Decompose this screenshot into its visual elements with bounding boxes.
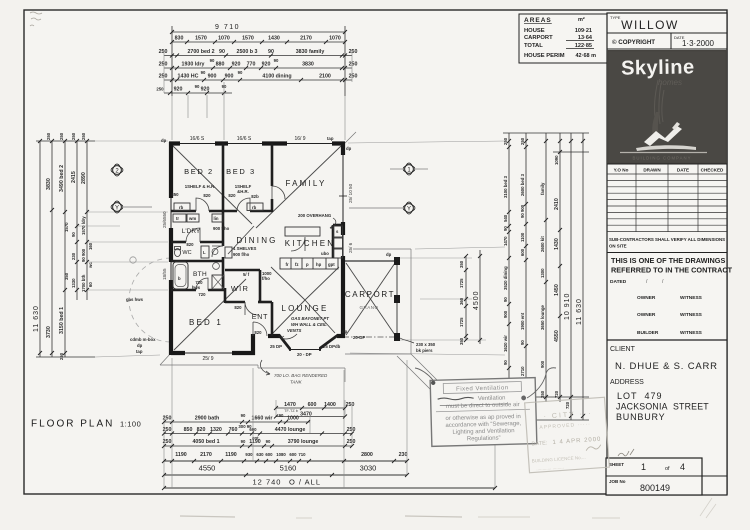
svg-text:Y: Y: [115, 206, 119, 212]
drawn/date/checked table: [607, 164, 727, 232]
svg-text:family: family: [540, 182, 545, 195]
svg-text:630: 630: [256, 452, 264, 457]
svg-text:WC: WC: [182, 250, 191, 256]
svg-text:CLIENT: CLIENT: [610, 346, 636, 353]
svg-text:3150 bed 1: 3150 bed 1: [59, 307, 65, 334]
svg-text:25/ 10 50: 25/ 10 50: [348, 183, 353, 203]
svg-text:1: 1: [641, 462, 646, 472]
svg-text:....: ....: [713, 268, 719, 274]
faint marks below border: [180, 516, 235, 517]
svg-text:900 f/ho: 900 f/ho: [233, 252, 250, 257]
svg-text:1190: 1190: [175, 452, 187, 458]
svg-text:90: 90: [210, 58, 215, 63]
svg-text:25 DPdb: 25 DPdb: [323, 344, 341, 349]
laundry cells: [173, 203, 263, 258]
svg-text:b: b: [178, 276, 181, 281]
svg-text:820: 820: [186, 242, 194, 247]
svg-text:lin: lin: [214, 216, 219, 221]
title column frame: [607, 13, 727, 495]
svg-text:DATED: DATED: [610, 279, 627, 285]
svg-text:930: 930: [245, 452, 253, 457]
svg-text:4 SHELVES: 4 SHELVES: [233, 246, 256, 251]
svg-text:350: 350: [459, 337, 464, 345]
sheet box: [618, 449, 634, 456]
svg-text:1SHELF & H.R.: 1SHELF & H.R.: [185, 184, 216, 189]
svg-text:16/6 S: 16/6 S: [237, 136, 252, 142]
svg-text:1430: 1430: [554, 238, 560, 250]
svg-text:710: 710: [298, 452, 306, 457]
svg-text:1·3·2000: 1·3·2000: [682, 39, 715, 48]
svg-text:2800: 2800: [361, 452, 373, 458]
svg-text:2700 bed 2: 2700 bed 2: [187, 49, 214, 55]
kitchen bench cells: [280, 226, 343, 269]
svg-text:25/ 6: 25/ 6: [348, 242, 353, 253]
svg-text:hp: hp: [316, 262, 322, 267]
svg-text:N. DHUE & S. CARR: N. DHUE & S. CARR: [615, 361, 718, 372]
fixed ventilation stamp: [430, 378, 537, 447]
svg-text:1620 wir: 1620 wir: [503, 335, 508, 352]
svg-text:wm: wm: [188, 216, 196, 221]
svg-text:850: 850: [184, 427, 193, 433]
svg-text:12 740: 12 740: [253, 478, 282, 487]
svg-text:1070: 1070: [329, 36, 341, 42]
svg-text:DATE: DATE: [677, 168, 689, 173]
svg-text:2410: 2410: [554, 198, 560, 210]
svg-text:820: 820: [254, 330, 262, 335]
svg-text:90: 90: [279, 413, 284, 418]
svg-text:DINING: DINING: [236, 236, 277, 245]
svg-text:BED 3: BED 3: [226, 167, 256, 176]
svg-text:Ventilation: Ventilation: [478, 395, 506, 402]
svg-text:2500 b 3: 2500 b 3: [237, 49, 258, 55]
carport centerline: [343, 336, 397, 338]
svg-text:KITCHEN: KITCHEN: [285, 239, 336, 248]
svg-text:900 f/ho: 900 f/ho: [213, 226, 230, 231]
svg-text:1470: 1470: [284, 402, 296, 408]
vertical edges / extensions: [164, 358, 495, 488]
svg-text:82b: 82b: [251, 194, 259, 199]
svg-text:OWNER: OWNER: [637, 312, 656, 318]
svg-text:BUILDING COMPANY: BUILDING COMPANY: [633, 156, 692, 161]
svg-text:42·68 m: 42·68 m: [576, 53, 597, 59]
svg-text:1190: 1190: [225, 452, 237, 458]
svg-text:2900 bath: 2900 bath: [195, 416, 219, 422]
svg-text:1100: 1100: [520, 232, 525, 242]
svg-text:© COPYRIGHT: © COPYRIGHT: [612, 39, 655, 46]
svg-text:920: 920: [232, 62, 241, 68]
svg-text:230: 230: [71, 252, 76, 260]
svg-text:720: 720: [565, 401, 570, 409]
svg-text:90: 90: [503, 297, 508, 302]
svg-text:700 LO. BAG RENDERED: 700 LO. BAG RENDERED: [274, 373, 328, 378]
svg-text:250: 250: [349, 62, 358, 68]
svg-text:25/ 9: 25/ 9: [202, 356, 213, 362]
svg-text:cdmb m-box: cdmb m-box: [130, 337, 156, 342]
svg-text:tap: tap: [327, 136, 334, 141]
svg-text:830: 830: [175, 36, 184, 42]
svg-text:250: 250: [59, 352, 64, 360]
section marker Y: [111, 201, 152, 213]
svg-text:600: 600: [308, 402, 317, 408]
svg-text:Regulations”: Regulations”: [467, 436, 501, 443]
svg-text:109·21: 109·21: [575, 28, 592, 34]
svg-text:of: of: [665, 466, 670, 472]
svg-text:1000: 1000: [287, 416, 299, 422]
svg-text:BUILDER: BUILDER: [637, 330, 659, 336]
svg-text:1570: 1570: [195, 36, 207, 42]
svg-text:800149: 800149: [640, 483, 670, 493]
svg-text:160: 160: [88, 242, 93, 250]
svg-text:SUB-CONTRACTORS SHALL VERIFY A: SUB-CONTRACTORS SHALL VERIFY ALL DIMENSI…: [609, 237, 725, 242]
svg-text:1430: 1430: [268, 36, 280, 42]
svg-text:3830 family: 3830 family: [296, 49, 325, 55]
svg-text:20-DP: 20-DP: [353, 335, 365, 340]
svg-text:11 630: 11 630: [33, 305, 40, 332]
svg-text:250: 250: [46, 132, 51, 140]
svg-text:&H.R.: &H.R.: [237, 189, 249, 194]
svg-text:1070: 1070: [218, 36, 230, 42]
svg-text:16/ 9: 16/ 9: [294, 136, 305, 142]
svg-text:3790 lounge: 3790 lounge: [288, 439, 319, 445]
svg-text:JACKSONIA STREET: JACKSONIA STREET: [616, 402, 709, 412]
svg-text:600: 600: [265, 452, 273, 457]
svg-text:90: 90: [503, 226, 508, 231]
svg-text:1725: 1725: [459, 278, 464, 288]
svg-text:1430 HC: 1430 HC: [178, 74, 199, 80]
svg-text:ENT: ENT: [252, 314, 268, 321]
svg-text:90: 90: [520, 340, 525, 345]
svg-text:230 x 350: 230 x 350: [416, 342, 436, 347]
svg-text:250: 250: [520, 137, 525, 145]
svg-text:230: 230: [399, 452, 408, 458]
svg-text:FLOOR PLAN: FLOOR PLAN: [31, 419, 114, 430]
svg-text:4470 lounge: 4470 lounge: [275, 427, 306, 433]
svg-text:90: 90: [266, 439, 271, 444]
svg-text:4550: 4550: [554, 330, 560, 342]
svg-text:60: 60: [88, 282, 93, 287]
svg-text:90: 90: [219, 49, 225, 55]
svg-text:90 900: 90 900: [81, 248, 86, 262]
svg-text:920: 920: [174, 87, 183, 93]
svg-text:3650 lounge: 3650 lounge: [540, 305, 545, 330]
svg-text:1300: 1300: [540, 268, 545, 278]
svg-text:tr: tr: [176, 216, 179, 221]
svg-text:600: 600: [289, 452, 297, 457]
svg-text:25 DP: 25 DP: [270, 344, 282, 349]
svg-text:11 630: 11 630: [576, 298, 583, 325]
svg-text:bk piers: bk piers: [416, 348, 433, 353]
svg-text:1930 ldry: 1930 ldry: [182, 62, 205, 68]
svg-text:GAS BAYONET PT: GAS BAYONET PT: [291, 316, 329, 321]
svg-text:250: 250: [346, 402, 355, 408]
svg-text:gas hws: gas hws: [126, 297, 144, 302]
svg-text:WH WALL & CEIL: WH WALL & CEIL: [291, 322, 327, 327]
svg-text:WITNESS: WITNESS: [680, 312, 703, 318]
svg-text:dp: dp: [386, 252, 392, 257]
svg-text:360: 360: [459, 297, 464, 305]
svg-text:LOUNGE: LOUNGE: [282, 304, 329, 313]
svg-text:BTH: BTH: [193, 271, 207, 278]
svg-text:250: 250: [347, 439, 356, 445]
svg-text:WILLOW: WILLOW: [621, 18, 679, 32]
svg-text:TF-TZ b: TF-TZ b: [284, 409, 298, 413]
svg-text:ON SITE: ON SITE: [609, 244, 627, 249]
svg-text:4550: 4550: [199, 464, 216, 473]
svg-text:2600 bed 3: 2600 bed 3: [520, 173, 525, 196]
right section markers: [390, 163, 428, 175]
svg-text:tap: tap: [136, 349, 143, 354]
svg-text:GRANO: GRANO: [359, 305, 378, 310]
svg-text:3520 dining: 3520 dining: [503, 266, 508, 290]
svg-text:16/6 S: 16/6 S: [190, 136, 205, 142]
ticks: [464, 139, 585, 418]
svg-text:BUNBURY: BUNBURY: [616, 412, 665, 422]
svg-text:1:100: 1:100: [120, 420, 141, 429]
tick marks: [168, 30, 347, 95]
svg-text:Y: Y: [407, 207, 411, 213]
svg-text:1570 ldry: 1570 ldry: [81, 216, 86, 235]
svg-text:m²: m²: [578, 16, 585, 23]
svg-text:9 710: 9 710: [215, 24, 240, 31]
svg-text:880: 880: [216, 62, 225, 68]
svg-text:250: 250: [347, 427, 356, 433]
svg-text:dp: dp: [346, 146, 352, 151]
svg-text:3030: 3030: [360, 464, 377, 473]
svg-text:720: 720: [198, 292, 206, 297]
svg-text:4100 dining: 4100 dining: [262, 74, 291, 80]
svg-text:SHEET: SHEET: [609, 462, 624, 467]
svg-text:250: 250: [349, 49, 358, 55]
svg-text:CARPORT: CARPORT: [345, 290, 395, 299]
svg-text:WITNESS: WITNESS: [680, 295, 703, 301]
tick marks on left strings: [38, 139, 89, 355]
svg-text:hws: hws: [192, 285, 201, 290]
svg-text:250: 250: [156, 87, 164, 92]
svg-text:25/6550: 25/6550: [162, 211, 167, 228]
svg-text:90: 90: [201, 70, 206, 75]
svg-text:FAMILY: FAMILY: [285, 179, 326, 188]
svg-text:1900 ent: 1900 ent: [520, 312, 525, 330]
svg-text:350: 350: [459, 260, 464, 268]
svg-text:90: 90: [71, 232, 76, 237]
svg-text:90: 90: [503, 360, 508, 365]
svg-text:HOUSE: HOUSE: [524, 28, 545, 34]
svg-text:2890: 2890: [81, 172, 87, 184]
svg-text:OWNER: OWNER: [637, 295, 656, 301]
svg-text:1725: 1725: [459, 317, 464, 327]
svg-text:fz: fz: [295, 262, 299, 267]
svg-text:2100: 2100: [319, 74, 331, 80]
svg-text:3730: 3730: [46, 326, 52, 338]
svg-text:2710: 2710: [520, 366, 525, 376]
svg-text:1330: 1330: [71, 278, 76, 288]
svg-text:250: 250: [59, 132, 64, 140]
exterior walls: [169, 142, 345, 355]
svg-text:p: p: [306, 262, 309, 267]
svg-text:900: 900: [225, 74, 234, 80]
svg-text:Y.O No: Y.O No: [614, 168, 629, 173]
svg-text:fr: fr: [286, 262, 289, 267]
areas box: [519, 14, 608, 63]
svg-text:90: 90: [274, 58, 279, 63]
gymnast figure: [655, 80, 664, 124]
svg-text:O / ALL: O / ALL: [289, 478, 321, 487]
svg-text:600: 600: [520, 248, 525, 256]
svg-text:AREAS: AREAS: [524, 17, 552, 24]
svg-text:2170: 2170: [200, 452, 212, 458]
svg-text:1190: 1190: [249, 439, 261, 445]
svg-text:250: 250: [159, 49, 168, 55]
svg-text:L: L: [203, 250, 206, 255]
svg-text:Skyline: Skyline: [621, 56, 695, 79]
svg-text:200 OVERHANG: 200 OVERHANG: [298, 213, 332, 218]
svg-text:600: 600: [249, 427, 257, 432]
svg-text:250: 250: [349, 74, 358, 80]
door arcs: [186, 186, 305, 336]
svg-text:850: 850: [171, 192, 179, 197]
svg-text:90: 90: [222, 84, 227, 89]
svg-text:WITNESS: WITNESS: [680, 330, 703, 336]
svg-text:4050 bed 1: 4050 bed 1: [192, 439, 219, 445]
svg-text:2170: 2170: [300, 36, 312, 42]
svg-text:90: 90: [241, 439, 246, 444]
svg-text:THIS IS ONE OF THE DRAWINGS: THIS IS ONE OF THE DRAWINGS: [611, 256, 725, 265]
carport pier line: [396, 261, 398, 340]
svg-text:DATE:: DATE:: [531, 440, 548, 447]
svg-text:820: 820: [234, 305, 242, 310]
svg-text:CHECKED: CHECKED: [701, 168, 724, 173]
svg-text:1450: 1450: [554, 284, 560, 296]
skyline logo dark box: [607, 50, 727, 164]
svg-text:2415: 2415: [71, 171, 77, 183]
svg-text:900: 900: [540, 360, 545, 368]
svg-text:540: 540: [503, 214, 508, 222]
svg-text:90: 90: [195, 84, 200, 89]
svg-text:3100 bed 3: 3100 bed 3: [503, 175, 508, 198]
svg-text:13·64: 13·64: [578, 35, 593, 41]
svg-text:20 - DP: 20 - DP: [297, 352, 312, 357]
svg-text:L'DRY: L'DRY: [182, 228, 201, 235]
svg-text:dp: dp: [342, 329, 348, 334]
svg-text:820: 820: [228, 193, 236, 198]
svg-text:1090: 1090: [554, 155, 559, 165]
svg-text:3490 bed 2: 3490 bed 2: [59, 165, 65, 192]
svg-text:900: 900: [503, 310, 508, 318]
svg-text:dp: dp: [161, 138, 167, 143]
svg-text:ADDRESS: ADDRESS: [610, 379, 644, 386]
svg-text:820: 820: [203, 193, 211, 198]
svg-text:TANK: TANK: [290, 380, 303, 385]
interior walls: [171, 144, 343, 337]
svg-text:5/ f: 5/ f: [243, 272, 250, 277]
section marker 2: [111, 164, 123, 176]
svg-text:5160: 5160: [280, 464, 297, 473]
svg-text:rb: rb: [252, 205, 257, 210]
svg-text:rb: rb: [179, 205, 184, 210]
svg-text:90: 90: [238, 70, 243, 75]
svg-text:250: 250: [540, 390, 545, 398]
svg-text:4: 4: [680, 462, 685, 472]
svg-text:LOT 479: LOT 479: [617, 391, 663, 401]
svg-text:250: 250: [159, 74, 168, 80]
svg-text:90 900: 90 900: [520, 204, 525, 218]
svg-text:wc: wc: [88, 262, 93, 269]
svg-text:350: 350: [64, 272, 69, 280]
svg-text:250: 250: [81, 132, 86, 140]
gas meter dashed arc: [129, 258, 171, 342]
svg-text:900: 900: [208, 74, 217, 80]
svg-text:1470: 1470: [503, 236, 508, 246]
svg-text:250: 250: [503, 137, 508, 145]
svg-text:122·85: 122·85: [575, 43, 592, 49]
svg-text:VENTS: VENTS: [287, 328, 301, 333]
svg-text:gpt: gpt: [328, 262, 335, 267]
bath fixtures: [173, 262, 188, 289]
svg-text:JOB No: JOB No: [609, 479, 626, 484]
svg-text:3830: 3830: [302, 62, 314, 68]
svg-text:1400: 1400: [324, 402, 336, 408]
svg-text:90: 90: [268, 49, 274, 55]
svg-text:4500: 4500: [473, 290, 480, 310]
svg-text:TYPE: TYPE: [610, 15, 621, 20]
svg-text:DRAWN: DRAWN: [643, 168, 661, 173]
svg-text:BED 2: BED 2: [184, 167, 214, 176]
svg-text:1080: 1080: [276, 452, 286, 457]
svg-text:homes: homes: [658, 78, 682, 87]
pencil scribbles top-left corner: [30, 12, 42, 26]
faint council stamp: [525, 397, 610, 472]
svg-text:90: 90: [241, 413, 246, 418]
svg-text:CARPORT: CARPORT: [524, 35, 553, 41]
svg-text:f/ho: f/ho: [262, 276, 270, 281]
svg-text:BED 1: BED 1: [189, 318, 223, 327]
svg-text:TOTAL: TOTAL: [524, 43, 543, 49]
svg-text:1700 bth: 1700 bth: [81, 274, 86, 292]
svg-text:1660 wir: 1660 wir: [252, 416, 273, 422]
svg-text:2600 kit: 2600 kit: [540, 236, 545, 252]
svg-text:250: 250: [71, 132, 76, 140]
svg-text:250: 250: [159, 62, 168, 68]
svg-text:HOUSE PERIM: HOUSE PERIM: [524, 53, 565, 59]
svg-text:720: 720: [554, 390, 559, 398]
svg-text:10 910: 10 910: [564, 293, 571, 320]
svg-text:1570: 1570: [242, 36, 254, 42]
svg-text:3830: 3830: [46, 178, 52, 190]
roof hip diagonals: [173, 146, 395, 350]
svg-text:WIR: WIR: [231, 284, 249, 293]
svg-text:dp: dp: [137, 343, 143, 348]
eaves / roof outline: [160, 132, 449, 408]
windows (white gap + thin line): [168, 141, 347, 356]
svg-text:18/55: 18/55: [162, 268, 167, 280]
extension verticals down to wall: [164, 50, 352, 140]
svg-text:ubo: ubo: [321, 251, 329, 256]
svg-text:1570: 1570: [64, 222, 69, 232]
ticks: [162, 406, 497, 490]
